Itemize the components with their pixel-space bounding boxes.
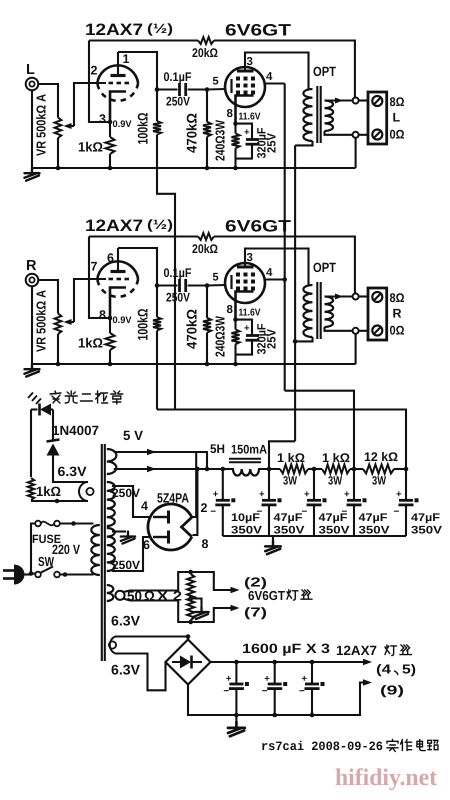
OPT B+ to choke node: [269, 441, 295, 469]
fuse FUSE: [35, 521, 41, 527]
svg-text:250V: 250V: [112, 486, 140, 500]
wire screen grid pin 4: [265, 278, 285, 280]
svg-text:3W: 3W: [328, 474, 343, 488]
svg-text:11.6V: 11.6V: [239, 112, 261, 123]
6.3V LED winding loop: [79, 482, 88, 501]
junction 8ohm (NFB takeoff): [353, 294, 359, 300]
5Z4PA filament chevron: [182, 517, 192, 536]
resistor 12k 3W: [363, 465, 394, 474]
feedback wire top: [89, 39, 198, 41]
hum pot top wire: [124, 572, 234, 592]
svg-text:1 kΩ: 1 kΩ: [322, 451, 350, 465]
wire 1k to 6.3V loop: [31, 500, 88, 502]
wire 12AX7 plate to coupling node: [118, 52, 157, 90]
node 6V6 cathode: [233, 121, 238, 126]
svg-text:3W: 3W: [283, 474, 298, 488]
svg-text:350V: 350V: [411, 524, 443, 536]
svg-text:6.3V: 6.3V: [58, 464, 87, 479]
svg-text:350V: 350V: [231, 524, 263, 536]
svg-text:+: +: [244, 323, 250, 334]
svg-text:+: +: [259, 489, 265, 500]
wire OPT primary bottom to B+ rail: [295, 337, 312, 341]
6V6GT cathode: [236, 96, 254, 124]
OPT secondary winding: [325, 297, 334, 328]
wire HV top to 5Z4 pin4: [112, 486, 150, 517]
speaker terminal block R: [359, 295, 368, 297]
12AX7 triode envelope (L half): [97, 65, 138, 83]
svg-text:0.9V: 0.9V: [113, 315, 133, 326]
svg-text:2: 2: [91, 64, 98, 78]
ground symbol L bus: [25, 168, 40, 181]
svg-text:25V: 25V: [265, 329, 279, 349]
6.3V heater winding loop: [110, 637, 115, 654]
capacitor 47uF 350V no2: [313, 469, 315, 500]
svg-text:−: −: [210, 506, 216, 517]
svg-text:(½): (½): [147, 217, 173, 232]
resistor 1k 3W first: [280, 465, 308, 474]
6V6GT tube envelope (R): [225, 263, 265, 303]
OPT B+ vertical: [294, 145, 296, 441]
svg-text:250V: 250V: [166, 95, 191, 109]
svg-text:3: 3: [247, 56, 253, 68]
potentiometer VR 500k A (R volume): [55, 314, 62, 335]
5V lead pin2: [114, 452, 207, 469]
svg-text:5: 5: [213, 272, 219, 284]
12AX7 plate pin wire: [117, 248, 119, 272]
screen B+ vertical: [284, 84, 286, 391]
wire R 100k bottom to B+ rail: [156, 348, 158, 410]
wire to 6V6 grid: [207, 88, 226, 91]
svg-text:6: 6: [143, 538, 150, 552]
12AX7 triode envelope (R half): [97, 261, 138, 279]
svg-text:−: −: [342, 506, 348, 517]
svg-text:0Ω: 0Ω: [390, 324, 405, 338]
ground bus R channel: [32, 363, 356, 365]
capacitor 10uF 350V: [222, 469, 224, 500]
capacitor 47uF 350V no4: [405, 469, 407, 500]
6V6GT cathode: [236, 292, 254, 320]
resistor 240ohm 3W cathode: [234, 124, 236, 134]
wire pin8: [193, 469, 198, 535]
wire pot bottom to ground bus: [57, 334, 59, 364]
resistor 100k plate load: [156, 286, 158, 318]
svg-text:L: L: [393, 111, 401, 125]
capacitor 47uF 350V no3: [353, 469, 355, 500]
svg-text:8: 8: [99, 308, 106, 322]
HV centre tap ground: [112, 530, 126, 532]
svg-text:25V: 25V: [265, 133, 279, 153]
svg-text:1: 1: [123, 52, 130, 66]
svg-text:6: 6: [107, 251, 114, 265]
svg-text:+: +: [344, 489, 350, 500]
svg-text:−: −: [257, 506, 263, 517]
svg-text:0.1µF: 0.1µF: [164, 266, 192, 280]
HV winding lower: [107, 528, 115, 571]
wire 0ohm to ground bus: [355, 334, 357, 364]
svg-text:+: +: [213, 489, 219, 500]
svg-text:8Ω: 8Ω: [390, 95, 405, 109]
LED light rays: [28, 393, 33, 399]
diode 1N4007: [52, 410, 54, 441]
capacitor 47uF 350V no1: [268, 469, 270, 500]
svg-text:12 kΩ: 12 kΩ: [364, 450, 398, 464]
svg-text:2: 2: [201, 501, 208, 515]
svg-text:7: 7: [91, 260, 98, 274]
svg-text:−: −: [394, 506, 400, 517]
6V6GT grid dots: [236, 273, 240, 277]
wire wiper to grid: [74, 279, 106, 322]
svg-text:12AX7: 12AX7: [336, 643, 377, 658]
speaker terminal block L: [359, 99, 368, 101]
svg-text:100kΩ: 100kΩ: [135, 309, 151, 341]
resistor 1k LED: [30, 410, 32, 478]
svg-text:(7): (7): [244, 605, 267, 620]
choke 5H core: [229, 458, 261, 460]
resistor 1k cathode: [109, 122, 111, 137]
svg-text:rs7cai 2008-09-26: rs7cai 2008-09-26: [261, 739, 383, 754]
svg-text:12AX7: 12AX7: [85, 21, 143, 39]
svg-text:11.6V: 11.6V: [239, 308, 261, 319]
wire HV bottom to 5Z4 pin6: [112, 537, 150, 571]
svg-text:12AX7: 12AX7: [85, 217, 143, 235]
svg-text:−: −: [262, 686, 268, 697]
wire 6.3V to bridge top: [115, 637, 188, 640]
resistor 470k grid leak: [206, 90, 208, 122]
rectifier 5Z4PA envelope: [148, 504, 192, 550]
5V lead pin8 (B+ bus start): [114, 468, 222, 470]
svg-text:1 kΩ: 1 kΩ: [277, 451, 305, 465]
12AX7 plate bar: [111, 270, 126, 273]
svg-text:220 V: 220 V: [52, 542, 80, 557]
6V6GT grid dots: [236, 77, 240, 81]
svg-text:6V6GT: 6V6GT: [225, 218, 291, 236]
12AX7 plate bar: [111, 74, 126, 77]
svg-text:3W: 3W: [372, 474, 387, 488]
ground symbol R bus: [25, 364, 40, 377]
svg-text:+: +: [302, 674, 308, 685]
ground symbol filter: [272, 536, 274, 541]
svg-text:(½): (½): [147, 21, 173, 36]
preamp B+ rail (after 12k): [157, 410, 406, 470]
capacitor 320uF 25V cathode bypass: [236, 320, 253, 335]
heater DC return rail: [188, 683, 367, 716]
ground symbol heater supply: [235, 715, 237, 722]
ground bus L channel: [32, 167, 356, 169]
5Z4PA plate 1: [153, 516, 167, 518]
OPT core: [316, 86, 318, 143]
svg-text:R: R: [26, 258, 37, 274]
wire to 6V6 grid: [207, 284, 226, 287]
svg-text:1kΩ: 1kΩ: [36, 484, 61, 499]
6V6GT plate bar: [237, 266, 254, 269]
svg-text:R: R: [393, 307, 402, 321]
svg-text:−: −: [302, 506, 308, 517]
hum pot bottom wire: [124, 599, 234, 622]
wire jack to volume pot top: [38, 280, 58, 314]
svg-text:VR 500kΩ A: VR 500kΩ A: [34, 289, 49, 352]
svg-text:0.9V: 0.9V: [113, 119, 133, 130]
LED diode: [31, 408, 38, 410]
svg-text:+: +: [264, 674, 270, 685]
feedback wire to cathode: [89, 41, 110, 123]
12AX7 grid dashes: [109, 82, 114, 85]
svg-text:5: 5: [213, 76, 219, 88]
svg-text:−: −: [299, 686, 305, 697]
svg-text:3: 3: [99, 112, 106, 126]
wire 12AX7 plate to coupling node: [118, 248, 157, 286]
resistor 20k feedback: [198, 233, 214, 240]
svg-text:100kΩ: 100kΩ: [135, 113, 151, 145]
junction nodes on B+ bus: [221, 467, 226, 472]
resistor 470k grid leak: [206, 286, 208, 318]
resistor 50ohm x2 hum: [187, 574, 194, 620]
capacitor 320uF 25V cathode bypass: [236, 124, 253, 139]
svg-text:8: 8: [202, 537, 209, 551]
svg-text:3: 3: [247, 252, 253, 264]
12AX7 cathode: [110, 92, 126, 123]
feedback wire top: [89, 235, 198, 237]
svg-text:1N4007: 1N4007: [52, 423, 99, 438]
choke 5H winding: [233, 469, 259, 476]
label (Chinese) LED: [50, 391, 61, 403]
screen B+ to filter node: [285, 391, 354, 469]
svg-text:240Ω3W: 240Ω3W: [213, 315, 228, 357]
wire jack to ground bus: [31, 90, 33, 168]
HV winding upper: [107, 482, 115, 526]
svg-text:8: 8: [227, 304, 234, 316]
wire 0ohm to ground bus: [355, 138, 357, 168]
filter caps common ground line: [223, 535, 406, 537]
capacitor 1600uF no1: [235, 662, 237, 684]
svg-text:470kΩ: 470kΩ: [184, 309, 200, 349]
wire OPT secondary top to 8ohm: [325, 99, 353, 101]
svg-text:20kΩ: 20kΩ: [192, 46, 218, 60]
wire 6V6 plate to OPT primary: [245, 249, 309, 286]
svg-text:1kΩ: 1kΩ: [78, 336, 103, 351]
svg-text:250V: 250V: [166, 291, 191, 305]
mains plug: [3, 569, 14, 572]
svg-text:5): 5): [402, 662, 416, 677]
wire pot bottom to ground bus: [57, 138, 59, 168]
svg-text:350V: 350V: [359, 524, 391, 536]
svg-text:5 V: 5 V: [123, 428, 143, 443]
svg-text:5H: 5H: [210, 442, 225, 456]
svg-text:OPT: OPT: [313, 260, 337, 275]
svg-text:6V6GT: 6V6GT: [225, 22, 291, 40]
svg-text:6.3V: 6.3V: [111, 613, 141, 629]
svg-text:+: +: [244, 127, 250, 138]
svg-text:4: 4: [266, 267, 273, 279]
wire jack to ground bus: [31, 286, 33, 364]
junction 0ohm: [353, 328, 359, 334]
wire OPT secondary top to 8ohm: [325, 295, 353, 297]
12AX7 plate pin wire: [117, 52, 119, 76]
svg-text:250V: 250V: [112, 558, 140, 572]
svg-text:(9): (9): [380, 683, 404, 698]
wire OPT secondary bottom to 0ohm: [325, 131, 353, 135]
svg-text:350V: 350V: [319, 524, 351, 536]
B+ bus segments: [222, 468, 234, 470]
wire L 100k bottom B+ drop with jog: [157, 152, 175, 410]
OPT primary winding: [303, 285, 312, 337]
wire fuse to primary top: [60, 522, 94, 524]
resistor 20k feedback: [198, 37, 214, 44]
svg-text:1kΩ: 1kΩ: [78, 140, 103, 155]
node 6V6 grid: [205, 283, 210, 288]
svg-text:OPT: OPT: [313, 64, 337, 79]
svg-text:4: 4: [141, 499, 148, 513]
OPT secondary winding: [325, 101, 334, 132]
OPT primary winding: [303, 89, 312, 141]
svg-text:47µF: 47µF: [274, 512, 303, 524]
svg-text:1600 µF X 3: 1600 µF X 3: [242, 641, 331, 656]
svg-text:6V6GT: 6V6GT: [248, 588, 285, 603]
potentiometer VR 500k A (L volume): [55, 118, 62, 139]
svg-text:+: +: [396, 489, 402, 500]
feedback wire to cathode: [89, 237, 110, 319]
6V6GT grid tick: [230, 275, 232, 289]
svg-text:VR 500kΩ A: VR 500kΩ A: [34, 93, 49, 156]
svg-text:8Ω: 8Ω: [390, 291, 405, 305]
svg-text:L: L: [26, 62, 35, 78]
6V6GT tube envelope (L): [225, 67, 265, 107]
OPT core: [316, 282, 318, 339]
junction screen R pin4: [282, 277, 287, 282]
junction OPT R primary: [293, 339, 298, 344]
svg-text:(4: (4: [376, 662, 392, 677]
svg-text:0Ω: 0Ω: [390, 128, 405, 142]
resistor 1k cathode: [109, 318, 111, 333]
wire fuse to switch: [31, 524, 35, 574]
6V6GT plate bar: [237, 70, 254, 73]
svg-text:240Ω3W: 240Ω3W: [213, 119, 228, 161]
node 6V6 grid: [205, 87, 210, 92]
svg-text:8: 8: [227, 108, 234, 120]
svg-text:+: +: [226, 674, 232, 685]
pot wiper arrow: [67, 321, 74, 323]
5V winding: [107, 449, 117, 474]
6V6GT grid tick: [230, 79, 232, 93]
wire 6V6 plate to OPT primary: [245, 53, 309, 90]
junction 0ohm: [353, 132, 359, 138]
wire OPT primary bottom to B+ rail: [295, 141, 312, 145]
svg-text:350V: 350V: [274, 524, 306, 536]
resistor 100k plate load: [156, 90, 158, 122]
svg-text:150mA: 150mA: [231, 443, 267, 457]
power transformer core: [101, 444, 103, 661]
svg-text:470kΩ: 470kΩ: [184, 113, 200, 153]
wire wiper to grid: [74, 83, 106, 126]
svg-text:4: 4: [266, 71, 273, 83]
svg-text:20kΩ: 20kΩ: [192, 242, 218, 256]
wire 6.3V to bridge left: [115, 654, 166, 691]
wire pin2: [192, 452, 196, 517]
svg-text:0.1µF: 0.1µF: [164, 70, 192, 84]
12AX7 grid dashes: [109, 278, 114, 281]
heater DC rail: [211, 661, 368, 663]
svg-text:+: +: [304, 489, 310, 500]
svg-text:47µF: 47µF: [411, 512, 440, 524]
hum pot wiper to ground: [191, 599, 202, 608]
resistor 1k 3W second: [322, 465, 350, 474]
12AX7 cathode: [110, 288, 126, 319]
5Z4PA plate 2: [153, 536, 167, 538]
220V primary winding: [91, 525, 100, 575]
wire switch to primary bottom: [60, 573, 94, 575]
junction 8ohm (NFB takeoff): [353, 98, 359, 104]
wire jack to volume pot top: [38, 84, 58, 118]
pot wiper arrow: [67, 125, 74, 127]
svg-text:−: −: [223, 686, 229, 697]
svg-text:6.3V: 6.3V: [111, 662, 141, 678]
bridge rectifier: [166, 640, 211, 685]
wire screen grid pin 4: [265, 82, 285, 84]
capacitor 1600uF no2: [274, 662, 276, 684]
resistor 240ohm 3W cathode: [234, 320, 236, 330]
node 6V6 cathode: [233, 317, 238, 322]
wire OPT secondary bottom to 0ohm: [325, 327, 353, 331]
svg-text:hifidiy.net: hifidiy.net: [335, 765, 437, 791]
svg-text:47µF: 47µF: [359, 512, 388, 524]
50ohm winding: [107, 585, 114, 601]
capacitor 1600uF no3: [311, 662, 313, 684]
